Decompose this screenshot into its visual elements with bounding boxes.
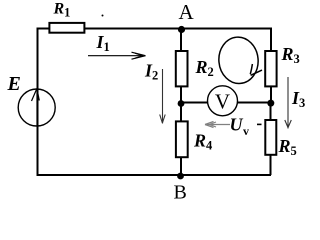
- svg-text:R1: R1: [53, 1, 71, 20]
- wire bottom horizontal: [37, 174, 272, 176]
- svg-text:I1: I1: [96, 32, 110, 54]
- resistor R2: [176, 51, 188, 86]
- wire top horizontal: [37, 28, 273, 30]
- svg-text:R2: R2: [195, 57, 214, 79]
- wire right vertical lower: [270, 103, 272, 175]
- arrow Uv: [205, 122, 230, 128]
- wire right vertical branch: [270, 28, 272, 104]
- svg-text:I2: I2: [144, 61, 158, 83]
- annotation ellipse: [217, 35, 262, 85]
- svg-text:A: A: [179, 0, 195, 24]
- source E circle: [18, 89, 55, 126]
- svg-text:R5: R5: [278, 136, 297, 158]
- arrow I2: [160, 69, 166, 124]
- svg-text:Uv: Uv: [230, 115, 250, 139]
- node A dot: [178, 26, 185, 33]
- svg-text:R4: R4: [193, 131, 213, 153]
- label minus: [257, 123, 262, 125]
- arrow I3: [285, 77, 292, 129]
- svg-text:E: E: [7, 73, 21, 95]
- arrow I1: [88, 52, 146, 59]
- svg-text:I3: I3: [291, 88, 305, 110]
- svg-text:V: V: [215, 90, 230, 114]
- stray dot: [102, 15, 104, 17]
- wire voltmeter horizontal: [181, 102, 270, 104]
- node dot left mid: [178, 100, 185, 107]
- resistor R1: [49, 23, 84, 33]
- source E arrow: [32, 89, 40, 127]
- node dot right mid: [267, 100, 274, 107]
- resistor R4: [176, 121, 188, 157]
- wire middle branch A to B: [180, 29, 182, 175]
- node B dot: [177, 173, 184, 180]
- resistor R3: [265, 51, 276, 86]
- svg-text:R3: R3: [281, 44, 300, 66]
- wire left vertical E branch: [37, 28, 39, 175]
- resistor R5: [265, 120, 276, 155]
- voltmeter V circle: [208, 86, 238, 116]
- svg-text:B: B: [174, 182, 187, 202]
